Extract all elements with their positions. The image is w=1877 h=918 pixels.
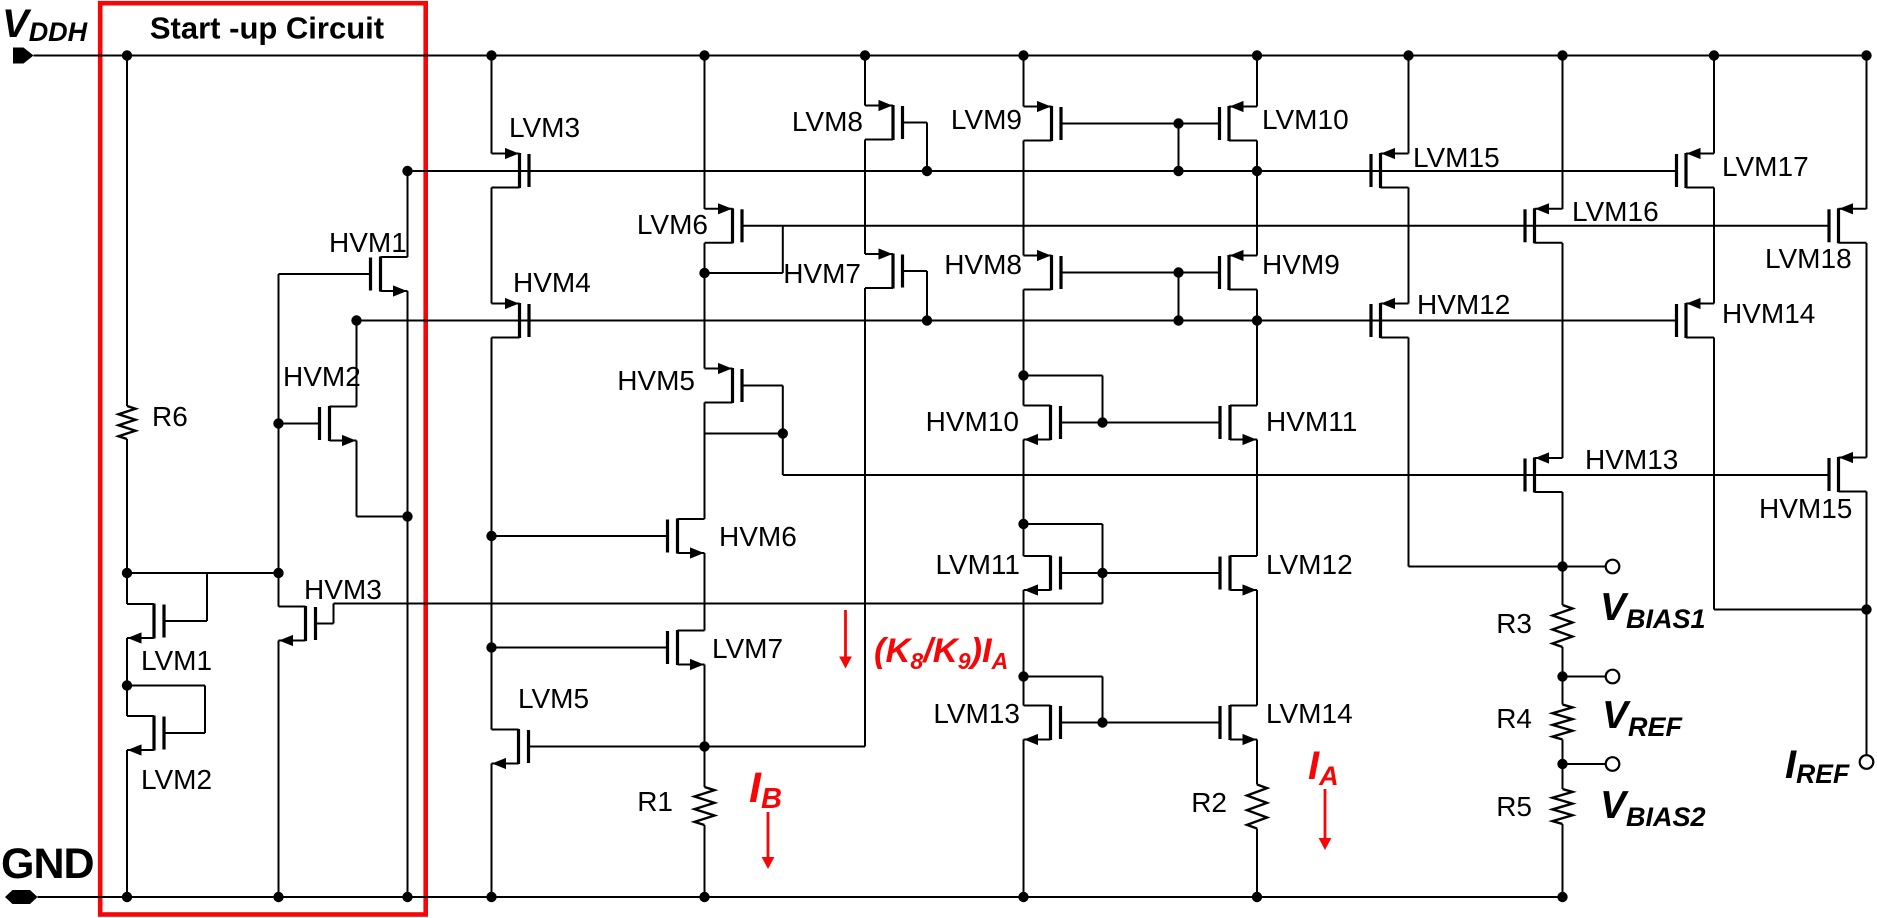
node startup gate column junction	[273, 568, 283, 578]
wire LVM13 diode loop	[1024, 677, 1103, 723]
wire VDDH to LVM3	[491, 56, 493, 154]
svg-text:IB: IB	[749, 764, 782, 815]
transistor HVM11	[1220, 405, 1257, 445]
transistor LVM14	[1220, 705, 1257, 745]
transistor LVM16 label	[1572, 196, 1659, 227]
resistor R5	[1553, 789, 1573, 824]
node HVM2 drain corner	[351, 315, 361, 325]
wire HVM15 drain to IREF	[1866, 492, 1868, 756]
wire GND rail	[38, 896, 1563, 898]
transistor LVM15 label	[1413, 142, 1500, 173]
wire LVM13 source to GND	[1023, 740, 1025, 898]
GND label	[1, 840, 94, 888]
node VBIAS2 junction	[1557, 759, 1567, 769]
node VDDH junction	[1018, 50, 1028, 60]
wire HVM3 gate rail y603	[334, 603, 1103, 605]
terminal VBIAS2	[1606, 757, 1620, 771]
node GND junction	[402, 892, 412, 902]
wire startup right column to GND	[407, 517, 409, 898]
wire HVM14 drain down	[1714, 338, 1867, 610]
transistor HVM13 label	[1585, 444, 1678, 475]
node VDDH junction	[1403, 50, 1413, 60]
transistor LVM2	[127, 716, 164, 756]
VBIAS1 label	[1600, 586, 1706, 634]
transistor LVM11	[1024, 556, 1061, 596]
svg-text:HVM9: HVM9	[1262, 249, 1340, 280]
svg-text:LVM14: LVM14	[1266, 698, 1353, 729]
VDDH label	[2, 2, 88, 47]
svg-text:LVM7: LVM7	[712, 633, 783, 664]
wire LVM11 source down	[1023, 590, 1025, 706]
wire VDDH to LVM8	[864, 56, 866, 106]
wire LVM7 gate	[492, 647, 668, 649]
transistor HVM1	[371, 257, 408, 297]
transistor LVM16	[1525, 203, 1563, 243]
wire LVM15 drain to HVM12	[1408, 188, 1410, 304]
node HVM8 gate rail junction	[1173, 315, 1183, 325]
node HVM9 drain rail junction	[1252, 315, 1262, 325]
node HVM6 gate junction	[486, 531, 496, 541]
svg-text:LVM10: LVM10	[1262, 104, 1349, 135]
node VDDH junction	[860, 50, 870, 60]
wire VDDH to LVM18	[1866, 56, 1868, 210]
svg-text:R4: R4	[1496, 703, 1532, 734]
resistor R6	[119, 406, 136, 439]
wire LVM11 diode loop	[1024, 524, 1103, 604]
wire VDDH to LVM16	[1562, 56, 1564, 210]
transistor LVM13 label	[933, 698, 1020, 729]
wire VDDH to LVM15	[1408, 56, 1410, 154]
wire HVM5 gate lead	[742, 385, 783, 387]
transistor HVM7 label	[783, 258, 861, 289]
wire HVM6 gate	[492, 535, 668, 537]
node LVM11 gate junction	[1097, 568, 1107, 578]
transistor HVM3	[279, 606, 316, 646]
transistor LVM3	[492, 148, 530, 188]
resistor R2	[1247, 785, 1267, 829]
wire VDDH to LVM17	[1713, 56, 1715, 154]
node LVM13 diode junction	[1018, 671, 1028, 681]
transistor LVM8	[865, 100, 903, 140]
transistor HVM7	[865, 248, 903, 288]
svg-text:IA: IA	[1308, 744, 1339, 791]
transistor HVM10 label	[926, 406, 1019, 437]
wire LVM13/LVM14 gate link	[1061, 722, 1221, 724]
resistor R5 label	[1496, 791, 1532, 822]
transistor LVM7	[668, 630, 705, 670]
svg-text:HVM11: HVM11	[1266, 406, 1357, 437]
svg-text:R6: R6	[152, 401, 188, 432]
transistor HVM12	[1371, 298, 1409, 338]
wire HVM5 drain tie	[705, 433, 783, 435]
wire HVM2 gate	[279, 423, 320, 425]
transistor HVM5	[705, 363, 743, 403]
wire LVM6 drain down	[704, 243, 706, 369]
transistor LVM6 label	[637, 209, 708, 240]
wire HVM1 drain up	[407, 171, 409, 257]
wire LVM1 source to LVM2	[126, 638, 128, 716]
VBIAS2 label	[1600, 784, 1706, 832]
transistor HVM10	[1024, 405, 1061, 445]
transistor HVM4	[492, 298, 530, 338]
wire LVM3 drain to HVM4	[491, 188, 493, 304]
wire HVM7 drain down	[864, 288, 866, 747]
wire HVM8/HVM9 gate link	[1061, 272, 1220, 274]
svg-text:LVM9: LVM9	[951, 104, 1022, 135]
svg-text:R3: R3	[1496, 608, 1532, 639]
VREF label	[1602, 694, 1684, 742]
resistor R1	[695, 787, 715, 825]
node GND junction	[486, 892, 496, 902]
node VDDH junction	[1557, 50, 1567, 60]
wire LVM17 drain to HVM14	[1713, 188, 1715, 304]
node VDDH junction	[1709, 50, 1719, 60]
wire VBIAS2 to R5	[1562, 764, 1564, 789]
node VDDH junction	[1252, 50, 1262, 60]
node VREF junction	[1557, 671, 1567, 681]
wire R4 to R5	[1562, 740, 1564, 765]
svg-text:HVM8: HVM8	[944, 249, 1022, 280]
wire HVM8 gate tie drop	[1178, 273, 1180, 321]
wire pbias1 gate rail y171	[408, 170, 1677, 172]
wire LVM11/LVM12 gate link	[1061, 572, 1221, 574]
resistor R2 label	[1191, 787, 1227, 818]
wire R6 to LVM1 drain	[126, 439, 128, 604]
transistor LVM9	[1024, 101, 1062, 141]
resistor R4 label	[1496, 703, 1532, 734]
transistor LVM15	[1371, 148, 1409, 188]
transistor LVM2 label	[141, 764, 212, 795]
wire HVM1 gate	[279, 274, 371, 425]
node VDDH junction	[1861, 50, 1871, 60]
IREF label	[1785, 743, 1850, 789]
wire HVM10 diode loop	[1024, 376, 1103, 423]
transistor HVM6	[668, 519, 705, 559]
svg-text:HVM12: HVM12	[1417, 289, 1510, 320]
transistor LVM3 label	[509, 112, 580, 143]
wire LVM1 drain rail	[127, 572, 279, 574]
svg-text:LVM3: LVM3	[509, 112, 580, 143]
transistor HVM15	[1829, 452, 1867, 492]
current IB arrow	[762, 812, 775, 869]
transistor LVM7 label	[712, 633, 783, 664]
transistor LVM9 label	[951, 104, 1022, 135]
wire LVM6 diode loop	[705, 226, 783, 273]
node gate tie rail junction	[1173, 166, 1183, 176]
svg-text:R5: R5	[1496, 791, 1532, 822]
wire VDDH rail	[34, 55, 1867, 57]
node HVM8 gate tie junction	[1173, 267, 1183, 277]
wire R3 to R4	[1562, 567, 1564, 705]
current IA label	[1308, 744, 1339, 791]
wire LVM5 source to GND	[491, 764, 493, 898]
wire LVM9/LVM10 gate link	[1061, 123, 1220, 125]
wire LVM14 source to R2	[1256, 740, 1258, 785]
node LVM7 gate junction	[486, 642, 496, 652]
transistor LVM18 label	[1765, 243, 1852, 274]
svg-text:HVM2: HVM2	[283, 361, 361, 392]
wire LVM2 source to GND	[126, 750, 128, 897]
svg-text:LVM12: LVM12	[1266, 549, 1353, 580]
svg-text:HVM14: HVM14	[1722, 298, 1815, 329]
start-up circuit title	[150, 11, 384, 46]
wire LVM12 source down	[1256, 590, 1258, 706]
node R6/LVM1 junction	[122, 568, 132, 578]
node HVM7 gate junction	[922, 315, 932, 325]
wire HVM3 source to GND	[278, 641, 280, 898]
terminal IREF	[1860, 755, 1874, 769]
resistor R1 label	[637, 786, 673, 817]
transistor HVM11 label	[1266, 406, 1357, 437]
GND pin	[5, 890, 38, 904]
svg-text:HVM3: HVM3	[304, 574, 382, 605]
svg-text:LVM11: LVM11	[935, 549, 1020, 580]
transistor LVM10	[1220, 101, 1258, 141]
wire LVM1 gate loop	[164, 573, 207, 621]
svg-text:R1: R1	[637, 786, 673, 817]
node VDDH junction	[122, 50, 132, 60]
wire VDDH to LVM6	[704, 56, 706, 210]
svg-text:LVM2: LVM2	[141, 764, 212, 795]
wire HVM13 drain to VBIAS1	[1562, 492, 1564, 567]
svg-text:HVM5: HVM5	[617, 365, 695, 396]
svg-text:LVM16: LVM16	[1572, 196, 1659, 227]
node LVM10 drain rail junction	[1252, 166, 1262, 176]
node LVM6 drain junction	[699, 268, 709, 278]
wire HVM8 drain down	[1023, 290, 1025, 406]
wire LVM8 drain to HVM7	[864, 140, 866, 255]
svg-text:VREF: VREF	[1602, 694, 1684, 742]
transistor HVM8 label	[944, 249, 1022, 280]
current IA arrow	[1319, 789, 1332, 850]
svg-text:HVM15: HVM15	[1759, 493, 1852, 524]
svg-text:LVM6: LVM6	[637, 209, 708, 240]
node LVM5 gate / R1 junction	[699, 741, 709, 751]
wire HVM6 source to LVM7	[704, 553, 706, 631]
wire R1 to GND	[704, 825, 706, 897]
node GND junction	[1252, 892, 1262, 902]
transistor LVM18	[1829, 203, 1867, 243]
node LVM8 gate junction	[922, 166, 932, 176]
svg-text:HVM10: HVM10	[926, 406, 1019, 437]
node GND junction	[273, 892, 283, 902]
wire HVM10/HVM11 gate link	[1061, 422, 1221, 424]
svg-text:LVM1: LVM1	[141, 645, 212, 676]
transistor LVM17	[1677, 148, 1715, 188]
transistor HVM2	[320, 406, 357, 446]
node HVM1 drain corner	[402, 166, 412, 176]
wire VBIAS1 stub	[1563, 566, 1606, 568]
transistor HVM5 label	[617, 365, 695, 396]
node HVM10 gate junction	[1097, 417, 1107, 427]
wire LVM2 gate loop	[164, 686, 205, 734]
wire HVM2 source down	[357, 441, 408, 517]
terminal VBIAS1	[1606, 560, 1620, 574]
svg-text:HVM4: HVM4	[513, 267, 591, 298]
resistor R3 label	[1496, 608, 1532, 639]
svg-text:VBIAS2: VBIAS2	[1600, 784, 1706, 832]
VDDH input pin	[13, 48, 34, 64]
node GND junction	[1557, 892, 1567, 902]
node LVM1/LVM2 junction	[122, 680, 132, 690]
transistor LVM1	[127, 604, 164, 644]
node GND junction	[699, 892, 709, 902]
transistor HVM15 label	[1759, 493, 1852, 524]
transistor LVM12	[1220, 556, 1257, 596]
wire HVM10 source down	[1023, 440, 1025, 557]
svg-text:HVM13: HVM13	[1585, 444, 1678, 475]
svg-text:VBIAS1: VBIAS1	[1600, 586, 1706, 634]
node HVM2 gate junction	[273, 418, 283, 428]
svg-text:HVM1: HVM1	[329, 227, 407, 258]
wire LVM5 gate line	[529, 746, 866, 748]
node VBIAS1 junction	[1557, 561, 1567, 571]
wire LVM16 drain to HVM13	[1562, 243, 1564, 458]
transistor HVM9	[1220, 250, 1258, 290]
wire R2 to GND	[1256, 829, 1258, 898]
transistor LVM10 label	[1262, 104, 1349, 135]
transistor HVM2 label	[283, 361, 361, 392]
transistor LVM5	[492, 729, 529, 769]
svg-text:GND: GND	[1, 840, 94, 888]
svg-text:R2: R2	[1191, 787, 1227, 818]
transistor HVM8	[1024, 250, 1062, 290]
node IREF junction	[1861, 604, 1871, 614]
node LVM13 gate junction	[1097, 717, 1107, 727]
wire HVM11 source down	[1256, 440, 1258, 557]
wire HVM9 drain down	[1256, 290, 1258, 406]
wire VDDH to LVM10	[1256, 56, 1258, 107]
resistor R4	[1553, 705, 1573, 740]
start-up circuit red box	[100, 3, 426, 914]
node HVM5 loop junction	[778, 428, 788, 438]
transistor LVM11 label	[935, 549, 1020, 580]
wire LVM10 drain down	[1256, 141, 1258, 256]
wire gate tie drop	[1178, 124, 1180, 172]
transistor HVM14 label	[1722, 298, 1815, 329]
node LVM9 gate tie junction	[1173, 118, 1183, 128]
transistor LVM17 label	[1722, 151, 1809, 182]
terminal VREF	[1606, 670, 1620, 684]
transistor HVM3 label	[304, 574, 382, 605]
wire R6 column from VDDH	[126, 56, 128, 407]
transistor LVM12 label	[1266, 549, 1353, 580]
wire HVM3 drain	[278, 573, 280, 607]
transistor LVM8 label	[792, 106, 863, 137]
transistor HVM12 label	[1417, 289, 1510, 320]
svg-text:LVM5: LVM5	[518, 683, 589, 714]
wire HVM1 source down	[407, 291, 409, 517]
svg-text:IREF: IREF	[1785, 743, 1850, 789]
current (K8/K9)IA arrow	[839, 610, 852, 669]
svg-text:LVM15: LVM15	[1413, 142, 1500, 173]
node VDDH junction	[699, 50, 709, 60]
wire startup gate column	[278, 425, 280, 574]
current IB label	[749, 764, 782, 815]
transistor LVM13	[1024, 705, 1061, 745]
svg-text:VDDH: VDDH	[2, 2, 88, 47]
node VDDH junction	[486, 50, 496, 60]
transistor HVM4 label	[513, 267, 591, 298]
svg-text:HVM7: HVM7	[783, 258, 861, 289]
wire HVM7 gate stub	[903, 271, 928, 321]
transistor HVM13	[1525, 452, 1563, 492]
transistor HVM6 label	[719, 521, 797, 552]
wire HVM4 drain down	[491, 338, 493, 730]
resistor R6 value label	[152, 401, 188, 432]
wire LVM8 gate stub	[903, 123, 928, 172]
svg-text:(K8/K9)IA: (K8/K9)IA	[874, 632, 1008, 674]
wire R5 to GND	[1562, 824, 1564, 897]
wire VBIAS2 stub	[1563, 763, 1606, 765]
wire LVM9 drain down	[1023, 141, 1025, 256]
current (K8/K9)IA label	[874, 632, 1008, 674]
svg-text:HVM6: HVM6	[719, 521, 797, 552]
wire HVM5 diode loop	[782, 386, 784, 476]
node LVM11 diode junction	[1018, 519, 1028, 529]
node HVM2 source junction	[402, 511, 412, 521]
transistor HVM1 label	[329, 227, 407, 258]
svg-text:Start -up Circuit: Start -up Circuit	[150, 11, 384, 46]
wire pbias2 gate rail y226	[742, 225, 1829, 227]
wire HVM3 gate loop	[316, 604, 334, 624]
wire hv gate rail y320	[357, 320, 1677, 322]
wire HVM5 drain down	[704, 403, 706, 520]
transistor LVM1 label	[141, 645, 212, 676]
transistor HVM14	[1677, 298, 1715, 338]
resistor R3	[1553, 605, 1573, 647]
transistor LVM6	[705, 203, 743, 243]
transistor HVM9 label	[1262, 249, 1340, 280]
svg-text:LVM13: LVM13	[933, 698, 1020, 729]
wire LVM7 source to R1	[704, 665, 706, 788]
wire VDDH to LVM9	[1023, 56, 1025, 107]
transistor LVM14 label	[1266, 698, 1353, 729]
wire VREF stub	[1563, 676, 1606, 678]
node GND junction	[122, 892, 132, 902]
transistor LVM5 label	[518, 683, 589, 714]
svg-text:LVM18: LVM18	[1765, 243, 1852, 274]
node HVM10 diode junction	[1018, 370, 1028, 380]
wire hv cascode gate rail y475	[783, 474, 1829, 476]
wire HVM12 drain down	[1409, 338, 1563, 567]
svg-text:LVM17: LVM17	[1722, 151, 1809, 182]
wire LVM18 drain to HVM15	[1866, 243, 1868, 458]
wire HVM2 drain up to rail	[356, 321, 358, 407]
node GND junction	[1018, 892, 1028, 902]
svg-text:LVM8: LVM8	[792, 106, 863, 137]
wire LVM2 gate rail	[127, 685, 205, 687]
